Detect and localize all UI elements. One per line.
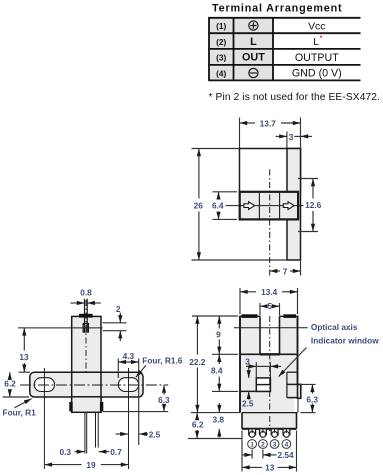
- dim 13.7: [240, 118, 301, 128]
- svg-text:19: 19: [86, 460, 96, 470]
- dim 3 window: [245, 356, 281, 366]
- flange box side lines: [287, 372, 301, 397]
- optical axis line through body: [226, 205, 304, 207]
- notch white: [294, 399, 297, 412]
- optical axis line front: [234, 327, 308, 329]
- body outline edges: [240, 316, 298, 413]
- svg-text:8.4: 8.4: [211, 366, 223, 376]
- dim 6.4 extension lines: [213, 192, 238, 220]
- indicator window: [256, 378, 270, 392]
- svg-text:*: *: [320, 34, 323, 43]
- dim 2.5 window: [242, 366, 254, 408]
- footnote: [209, 92, 381, 103]
- internal step line at window bottom: [240, 390, 270, 392]
- dim 22.2: [189, 316, 206, 413]
- svg-text:0.8: 0.8: [80, 288, 92, 298]
- dim 8.4: [211, 354, 223, 391]
- table col3 values: [292, 21, 342, 79]
- flange horizontal center line: [20, 384, 168, 386]
- svg-text:22.2: 22.2: [189, 357, 206, 367]
- svg-text:3: 3: [273, 442, 277, 449]
- dim 3 window extension lines: [256, 362, 270, 378]
- table grid lines: [208, 18, 360, 81]
- top view upper housing rectangle: [240, 149, 301, 192]
- svg-text:GND (0 V): GND (0 V): [292, 68, 342, 80]
- tower divider left: [258, 192, 260, 220]
- pin tip 3: [272, 429, 278, 437]
- svg-text:2.5: 2.5: [149, 430, 161, 440]
- dim 4.3 right extension: [138, 359, 140, 446]
- svg-text:Terminal Arrangement: Terminal Arrangement: [212, 3, 342, 15]
- svg-text:OUT: OUT: [242, 52, 265, 64]
- dim 4.3 left extension: [117, 359, 119, 379]
- svg-text:6.2: 6.2: [192, 420, 204, 430]
- dim 12.6: [305, 179, 322, 232]
- svg-text:2.5: 2.5: [242, 398, 254, 408]
- pin number 2: [259, 440, 268, 449]
- dim 5 extension lines: [260, 303, 280, 316]
- svg-text:13.7: 13.7: [260, 118, 277, 128]
- svg-text:(1): (1): [216, 21, 226, 31]
- extension line window bottom left: [212, 390, 238, 392]
- center line of tower: [85, 300, 87, 412]
- svg-text:(2): (2): [216, 37, 226, 47]
- left latch nub: [69, 402, 72, 412]
- svg-text:26: 26: [194, 200, 204, 210]
- dim 12.6 extension lines: [298, 179, 318, 232]
- detector block arrow: [283, 202, 294, 210]
- table cell shading cols 1-2: [209, 18, 273, 81]
- svg-text:* Pin 2 is not used for the EE: * Pin 2 is not used for the EE-SX472.: [209, 92, 381, 103]
- body below flange: [72, 397, 101, 413]
- sensor bar with emitter/detector towers: [240, 192, 298, 220]
- pin boss 2: [260, 429, 267, 435]
- svg-text:4.3: 4.3: [123, 351, 135, 361]
- tower divider right: [279, 192, 281, 220]
- svg-text:Indicator window: Indicator window: [311, 335, 379, 345]
- L label row2: [250, 36, 257, 48]
- dim 13.7 extension lines: [240, 118, 301, 149]
- svg-text:3: 3: [289, 132, 294, 142]
- svg-text:Optical axis: Optical axis: [311, 322, 358, 332]
- dim 2 extension lines: [103, 323, 127, 331]
- svg-text:5: 5: [267, 301, 272, 311]
- dim 4.3: [118, 351, 138, 362]
- dim 13.4 extension lines: [240, 288, 298, 314]
- dim 26: [194, 149, 204, 261]
- red asterisk row2: [320, 34, 323, 43]
- indicator window pointer: [279, 348, 307, 377]
- svg-text:OUTPUT: OUTPUT: [295, 52, 339, 64]
- extension line slot bottom left: [212, 353, 238, 355]
- dim 6.3 side: [158, 385, 170, 412]
- left tower cap: [242, 314, 258, 318]
- slot blade 0.8: [85, 299, 88, 333]
- pin tip 4: [284, 429, 290, 437]
- svg-text:0.7: 0.7: [110, 447, 122, 457]
- pin 2 (0.7): [96, 412, 99, 447]
- label Four, R1: [3, 399, 37, 418]
- dim 6.3 side extension bottom: [103, 411, 168, 413]
- pin 1 (0.3): [85, 412, 87, 453]
- label Optical axis: [311, 322, 358, 332]
- table col1 labels: [216, 21, 226, 78]
- dim 6.2 (flange height): [3, 372, 30, 397]
- svg-text:L: L: [313, 37, 319, 48]
- center line front: [269, 316, 271, 431]
- dim 2.54 extension lines: [252, 450, 263, 459]
- svg-text:12.6: 12.6: [305, 200, 322, 210]
- base outline: [242, 413, 297, 429]
- svg-text:6.4: 6.4: [212, 200, 224, 210]
- minus-circle symbol row4: [249, 68, 258, 77]
- aperture box: [83, 324, 88, 332]
- svg-text:4: 4: [285, 442, 289, 449]
- OUT label row3: [242, 52, 265, 64]
- svg-text:2.54: 2.54: [278, 450, 295, 460]
- svg-text:13.4: 13.4: [261, 287, 278, 297]
- pin boss 4: [283, 429, 290, 435]
- dim 13: [19, 328, 29, 372]
- pin boss 1: [249, 429, 256, 435]
- left slotted hole: [34, 378, 54, 392]
- dim 2: [116, 304, 121, 341]
- svg-text:13: 13: [19, 352, 29, 362]
- left hole center line: [43, 368, 45, 469]
- dim 2.5 side: [116, 430, 161, 440]
- dim 13.4: [240, 287, 298, 297]
- dim 6.4: [212, 192, 224, 220]
- extension line tower top left: [192, 315, 238, 317]
- body block: [240, 316, 298, 412]
- plus-circle symbol row1: [249, 21, 258, 30]
- dim 3.8: [213, 403, 225, 438]
- svg-text:3: 3: [245, 356, 250, 366]
- dim 6.2 front: [192, 413, 204, 439]
- dim 7 extension line right: [300, 261, 302, 276]
- dim 9: [216, 316, 221, 354]
- flange top extension left: [19, 371, 31, 373]
- base block: [242, 413, 297, 429]
- dim 3 extension line: [286, 132, 288, 149]
- mounting flange strip (edge-on): [287, 149, 301, 261]
- table title: [212, 3, 342, 15]
- pin number 3: [270, 440, 279, 449]
- svg-text:7: 7: [283, 266, 288, 276]
- dim 0.7: [99, 447, 123, 457]
- svg-text:9: 9: [216, 329, 221, 339]
- dim 3 (flange thickness): [276, 132, 313, 142]
- pin boss 3: [271, 429, 278, 435]
- svg-text:(4): (4): [216, 68, 226, 78]
- dim 13 extension lines: [242, 431, 297, 472]
- svg-text:Vcc: Vcc: [308, 21, 325, 32]
- dim 0.8: [71, 288, 101, 303]
- dim 6.3 front: [306, 384, 318, 412]
- svg-text:6.3: 6.3: [306, 394, 318, 404]
- pin number 4: [282, 440, 291, 449]
- svg-text:13: 13: [265, 463, 275, 473]
- extension line base top left: [191, 412, 240, 414]
- label Indicator window: [311, 335, 379, 345]
- svg-text:L: L: [250, 36, 257, 48]
- right slotted hole: [118, 378, 138, 392]
- right latch nub: [100, 402, 103, 412]
- mounting flange plate: [30, 372, 143, 397]
- extension line pin shoulder left: [188, 438, 242, 440]
- tower edges through flange: [72, 372, 101, 412]
- dim 2.54: [242, 450, 294, 460]
- svg-text:1: 1: [250, 442, 254, 449]
- vertical center line (slot axis): [269, 170, 271, 276]
- right tower cap: [283, 314, 296, 318]
- svg-text:Four, R1: Four, R1: [3, 408, 37, 418]
- tower slab: [72, 316, 101, 372]
- pin number 1: [248, 440, 257, 449]
- dim 7: [270, 266, 301, 276]
- dim 19: [44, 460, 128, 470]
- dim 6.3 front extension lines: [299, 384, 316, 412]
- optical axis line over bar: [240, 205, 298, 207]
- tower over flange (re-fill): [73, 373, 101, 396]
- dim 13 bottom: [242, 463, 297, 473]
- pin tip 1: [249, 429, 255, 437]
- right hole center line: [128, 368, 130, 469]
- black shield cap: [79, 314, 93, 318]
- svg-text:6.2: 6.2: [4, 379, 16, 389]
- svg-text:6.3: 6.3: [158, 395, 170, 405]
- svg-text:2: 2: [116, 304, 121, 314]
- emitter block arrow: [244, 202, 255, 210]
- svg-text:Four, R1.6: Four, R1.6: [142, 355, 182, 365]
- svg-text:3.8: 3.8: [213, 415, 225, 425]
- flange bulge right: [298, 384, 301, 412]
- dim 0.3: [60, 447, 85, 457]
- dim 26 extension lines: [192, 149, 288, 261]
- pin tip 2: [260, 429, 266, 437]
- slot cutout: [260, 314, 280, 354]
- optical axis line: [18, 327, 103, 329]
- label Four, R1.6: [136, 355, 183, 377]
- svg-text:(3): (3): [216, 53, 226, 63]
- svg-text:0.3: 0.3: [60, 447, 72, 457]
- svg-text:2: 2: [261, 442, 265, 449]
- dim 5: [260, 301, 280, 311]
